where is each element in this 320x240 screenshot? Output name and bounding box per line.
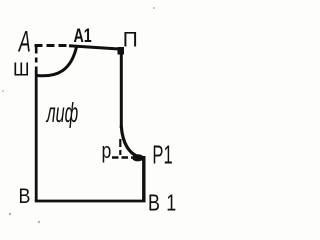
speck left edge	[2, 90, 4, 92]
corner blob at P	[118, 47, 125, 55]
svg-text:А1: А1	[74, 25, 92, 46]
svg-text:В1: В1	[148, 190, 182, 216]
svg-text:р: р	[102, 139, 112, 163]
top solid line A1-P (slopes slightly down)	[69, 46, 123, 50]
svg-text:П: П	[123, 28, 138, 51]
paper background	[0, 0, 196, 231]
svg-text:Ш: Ш	[13, 60, 30, 80]
speck top right	[153, 7, 155, 9]
svg-text:лиф: лиф	[45, 96, 78, 128]
left vertical line Sh-V	[35, 70, 38, 201]
neckline curve Sh-A1	[37, 47, 77, 76]
armhole curve to R1	[121, 126, 142, 158]
dashed line A-A1 (top horizontal)	[35, 44, 71, 47]
junction blob at curve end	[132, 154, 144, 161]
speck bottom left 1	[9, 213, 11, 215]
dashed horizontal R-R1	[112, 156, 132, 159]
svg-text:А: А	[17, 26, 30, 59]
right vertical line below P corner	[120, 49, 123, 129]
dash-dot line A-Sh (left vertical, top part)	[35, 45, 38, 72]
bottom line V-V1	[35, 200, 146, 203]
svg-text:В: В	[19, 185, 31, 209]
dashed vertical at R	[119, 139, 121, 155]
right lower vertical R1-V1	[142, 156, 145, 201]
svg-text:Р1: Р1	[152, 141, 172, 169]
speck bottom left 2	[38, 221, 40, 223]
